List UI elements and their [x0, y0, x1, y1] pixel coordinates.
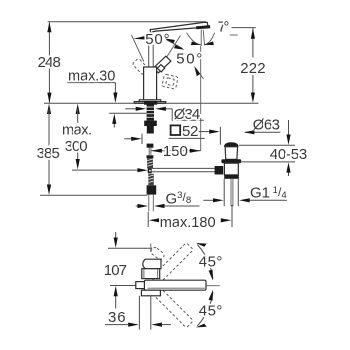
dimension max.180: [147, 212, 149, 227]
svg-text:50°: 50°: [176, 50, 202, 67]
svg-text:150: 150: [163, 143, 188, 160]
spout axis line right of tip: [206, 285, 220, 287]
dashed spout rotated +45 (upper): [151, 243, 193, 285]
spout outlet extension line (x=200.7): [200, 46, 202, 151]
top view side tab: [136, 282, 145, 289]
dimension 222 vertical line: [232, 27, 256, 29]
label square 52: [171, 125, 181, 135]
aerator tip (dark): [196, 25, 210, 29]
handle inner detail: [157, 65, 164, 72]
hatched stud below junction: [148, 174, 154, 186]
dimension 36: [138, 296, 140, 330]
dimension max.300 vertical line: [76, 104, 80, 114]
drain body: [224, 163, 238, 175]
svg-text:385: 385: [37, 145, 60, 162]
svg-text:Ø63: Ø63: [253, 117, 280, 134]
svg-text:107: 107: [104, 262, 127, 279]
svg-text:300: 300: [65, 138, 88, 155]
dashed handle (left swung position): [132, 58, 149, 75]
centerline below base: [150, 296, 152, 330]
top view reference line (body rear): [108, 247, 152, 249]
svg-text:45°: 45°: [199, 253, 223, 270]
50deg leader arrow (left): [144, 37, 146, 39]
dashed spout rotated -45 (lower): [151, 286, 193, 328]
faucet handle (solid, up position): [154, 56, 171, 73]
pop-up rod to drain: [152, 167, 215, 169]
top view base block: [141, 290, 160, 296]
top view spout bar: [144, 280, 206, 290]
drain nut band: [224, 175, 239, 179]
label G1 1/4 with arrows at tailpipe: [203, 199, 213, 201]
rod knob (dark): [215, 166, 224, 175]
wire deck underside line: [109, 112, 146, 114]
wire 385 bottom reference line: [40, 194, 147, 196]
7deg vertical lines under aerator: [200, 30, 202, 46]
top view handle (lever seen from above): [143, 259, 161, 269]
svg-text:40-53: 40-53: [270, 146, 307, 163]
svg-text:248: 248: [38, 54, 61, 71]
dimension square52 left tick and arrow: [141, 134, 143, 144]
drain o-ring flange: [221, 159, 241, 163]
svg-text:7°: 7°: [218, 19, 230, 35]
supply pipe below fitting: [148, 195, 150, 212]
dashed handle outline (rotated, top view): [150, 246, 166, 261]
stud continuation: [147, 126, 154, 134]
50deg double arrow arc: [167, 40, 183, 49]
faucet spout arm: [150, 22, 208, 33]
drain plug cap: [224, 142, 239, 146]
hose segment: [147, 144, 154, 148]
wire top reference line (spout top level): [48, 21, 206, 23]
svg-text:36: 36: [108, 309, 126, 326]
svg-text:222: 222: [240, 60, 265, 77]
top view centerline (upper stub): [150, 244, 152, 253]
svg-text:45°: 45°: [199, 302, 223, 319]
svg-text:max.: max.: [62, 123, 92, 139]
label G3/8 with arrows at supply pipe: [136, 205, 138, 207]
threaded shank below deck: [147, 103, 154, 120]
handle axis line (solid handle extended): [161, 36, 181, 67]
G3/8 supply fitting (dark): [147, 185, 157, 194]
dimension max.30 leader: [67, 82, 115, 84]
hose nut: [147, 155, 154, 158]
mounting nut: [144, 121, 157, 126]
dimension 248 vertical line: [48, 23, 50, 103]
spout centerline reference (left): [110, 285, 136, 287]
faucet body: [144, 67, 157, 100]
svg-text:52: 52: [182, 123, 198, 140]
hatched stud above junction: [147, 158, 153, 168]
label Ø34 with bracket: [172, 109, 204, 120]
7deg arc with arrowheads: [187, 33, 201, 45]
svg-text:Ø34: Ø34: [174, 106, 200, 123]
dimension 107: [115, 232, 117, 242]
svg-text:max.180: max.180: [160, 215, 216, 231]
escutcheon base plate: [139, 100, 160, 103]
dimension 385 vertical line: [47, 104, 51, 114]
pop-up rod junction: [148, 168, 152, 173]
drain tailpipe: [223, 179, 225, 206]
dimension 40-53: [239, 144, 295, 146]
wire max.300 bottom reference line with arrow to faucet: [72, 169, 142, 171]
handle axis line (left, dashed position): [132, 35, 144, 62]
square52 right leader arrow and tick: [199, 131, 210, 133]
swivel arc lower with arrowheads: [197, 292, 213, 326]
dimension 150: [151, 150, 200, 152]
drain neck: [225, 147, 238, 160]
dimension max.30 lower arrow: [113, 121, 115, 128]
top view neck block: [142, 269, 160, 279]
svg-text:50°: 50°: [145, 31, 169, 48]
dimension Ø34 arrows at shank: [125, 108, 136, 110]
svg-text:max.30: max.30: [68, 69, 115, 85]
handle axis line (right dashed position) with arrowhead: [196, 69, 204, 80]
swivel arc upper with arrowheads: [197, 245, 213, 279]
wire deck / countertop top line: [44, 102, 259, 104]
hose pipe: [148, 148, 150, 156]
dashed handle (front swung position): [162, 74, 178, 89]
faucet neck column: [148, 45, 150, 67]
